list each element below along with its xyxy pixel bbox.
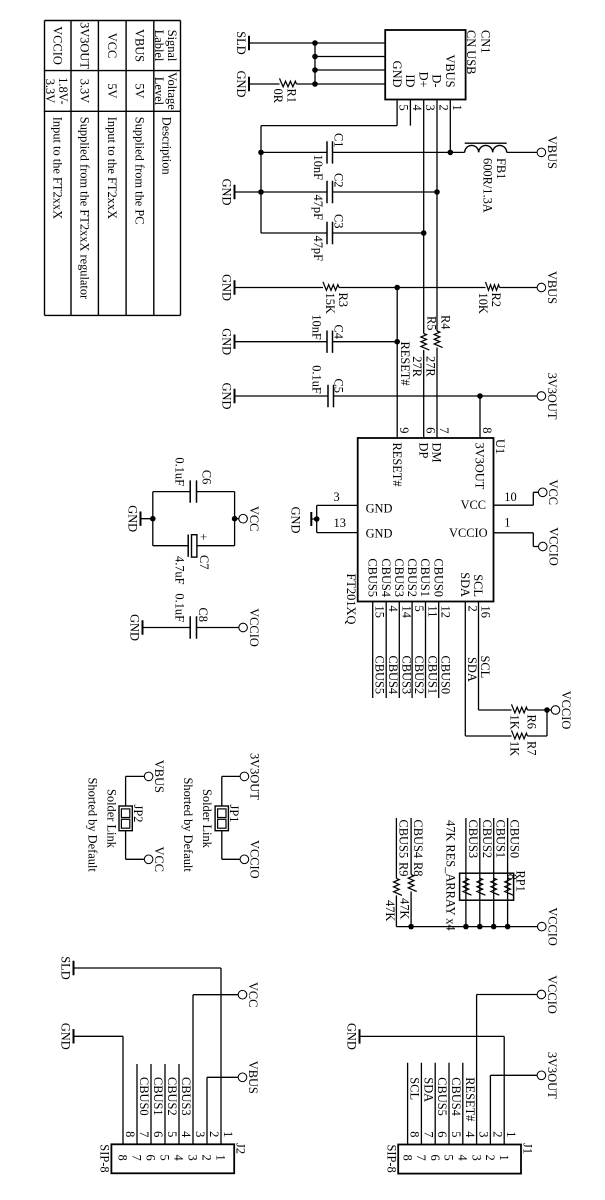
capacitor C2 47pF bbox=[261, 173, 440, 220]
J2 pin 5 numbers bbox=[158, 1131, 179, 1161]
svg-text:7: 7 bbox=[414, 1155, 428, 1161]
svg-text:5: 5 bbox=[158, 1155, 172, 1161]
wire J1 RESET# net bbox=[463, 1063, 477, 1145]
wire CN1 shield stub S2 bbox=[315, 56, 385, 58]
svg-text:10K: 10K bbox=[476, 293, 490, 314]
J2 pin 4 numbers bbox=[172, 1131, 193, 1161]
svg-text:Shorted by Default: Shorted by Default bbox=[86, 778, 100, 873]
VCC flag bbox=[235, 506, 261, 531]
svg-text:VCCIO: VCCIO bbox=[51, 26, 65, 65]
wire CBUS5 net bbox=[373, 602, 387, 699]
wire joining U1 ground pins bbox=[316, 505, 318, 532]
ground flag below C6/C7 bbox=[126, 505, 153, 532]
U1 left pin 7 DM bbox=[430, 427, 451, 462]
U1 right pin 16 SCL bbox=[471, 574, 492, 618]
junction dots on shield bus bbox=[312, 40, 318, 87]
svg-text:Solder Link: Solder Link bbox=[200, 789, 214, 849]
wire D- / DM line bbox=[436, 100, 438, 439]
wire CBUS3 net bbox=[399, 602, 413, 699]
resistor R8 47K on CBUS4 bbox=[398, 818, 426, 927]
wire SDA net bbox=[465, 602, 479, 737]
svg-text:9: 9 bbox=[397, 427, 411, 433]
wire J2 CBUS2 net bbox=[165, 1064, 179, 1144]
J1 pin 8 numbers bbox=[400, 1131, 421, 1160]
ground flag below R1 bbox=[234, 71, 249, 98]
VCCIO flag at J1 bbox=[537, 975, 559, 1014]
svg-text:GND: GND bbox=[366, 527, 393, 541]
U1 right pin 12 CBUS0 bbox=[431, 558, 452, 617]
svg-text:VCC: VCC bbox=[247, 506, 261, 531]
ground flag below R3 bbox=[220, 274, 235, 301]
VBUS flag top-left bbox=[537, 136, 559, 169]
svg-text:47pF: 47pF bbox=[311, 236, 325, 262]
svg-text:JP2: JP2 bbox=[131, 805, 145, 823]
svg-text:C5: C5 bbox=[332, 379, 346, 393]
wire CBUS4 net bbox=[386, 602, 400, 699]
svg-text:Input to the FT2xxX: Input to the FT2xxX bbox=[105, 117, 119, 219]
wire CBUS0 to RP1 bbox=[508, 818, 522, 927]
wire D+ / DP line bbox=[423, 100, 425, 439]
J1 pin 7 numbers bbox=[414, 1131, 435, 1160]
svg-text:3V3OUT: 3V3OUT bbox=[248, 753, 262, 800]
capacitor C7 4.7uF polarized bbox=[153, 533, 235, 584]
J1 pin 4 numbers bbox=[456, 1131, 477, 1160]
resistor R2 10K bbox=[397, 282, 537, 314]
svg-text:RESET#: RESET# bbox=[398, 342, 412, 386]
svg-text:VBUS: VBUS bbox=[246, 1061, 260, 1094]
svg-text:CBUS5: CBUS5 bbox=[435, 1077, 449, 1116]
svg-text:CBUS2: CBUS2 bbox=[480, 820, 494, 859]
svg-text:12: 12 bbox=[439, 606, 453, 618]
node RESET junction dots bbox=[394, 285, 400, 345]
J1 pin 1 numbers bbox=[497, 1131, 518, 1160]
svg-text:GND: GND bbox=[234, 71, 248, 98]
connector J2 SIP-8 bbox=[98, 1143, 248, 1173]
J2 pin 8 numbers bbox=[116, 1131, 137, 1161]
svg-text:27R: 27R bbox=[410, 356, 424, 377]
svg-text:D+: D+ bbox=[416, 72, 430, 88]
svg-text:CBUS3: CBUS3 bbox=[399, 656, 413, 695]
svg-text:47K: 47K bbox=[383, 900, 397, 921]
svg-text:5: 5 bbox=[449, 1131, 463, 1137]
svg-text:CBUS1: CBUS1 bbox=[151, 1077, 165, 1116]
wire shield bus bbox=[314, 43, 316, 84]
svg-text:Solder Link: Solder Link bbox=[105, 789, 119, 849]
node GND rail junction bbox=[150, 516, 156, 522]
svg-text:Signal: Signal bbox=[165, 30, 179, 62]
svg-text:CN1: CN1 bbox=[479, 30, 493, 53]
VCC flag at JP2 bbox=[126, 847, 166, 872]
junction dots on RP1 bus bbox=[408, 924, 510, 930]
ground flag below C4 bbox=[220, 328, 235, 355]
resistor R3 15K bbox=[235, 282, 398, 314]
wire CBUS1 to RP1 bbox=[494, 818, 508, 927]
svg-text:2: 2 bbox=[207, 1131, 221, 1137]
svg-text:CBUS4: CBUS4 bbox=[386, 656, 400, 695]
svg-text:GND: GND bbox=[220, 274, 234, 301]
ground flag below cap bus bbox=[220, 179, 262, 206]
svg-text:8: 8 bbox=[408, 1131, 422, 1137]
U1 top pin 1 VCCIO bbox=[449, 516, 539, 547]
svg-text:JP1: JP1 bbox=[227, 805, 241, 823]
svg-text:VCCIO: VCCIO bbox=[545, 975, 559, 1014]
svg-text:3: 3 bbox=[477, 1131, 491, 1137]
capacitor C3 47pF bbox=[261, 214, 427, 261]
svg-text:R6: R6 bbox=[524, 715, 538, 729]
svg-text:SDA: SDA bbox=[465, 657, 479, 682]
wire CBUS1 net bbox=[426, 602, 440, 699]
3V3OUT flag at J1 bbox=[537, 1052, 559, 1099]
svg-text:8: 8 bbox=[400, 1155, 414, 1161]
svg-text:0.1uF: 0.1uF bbox=[173, 593, 187, 622]
SLD flag bbox=[234, 31, 249, 54]
wire SLD down bbox=[249, 42, 315, 44]
svg-text:CBUS3: CBUS3 bbox=[466, 820, 480, 859]
node R6/R7 junction bbox=[544, 707, 550, 713]
svg-text:3.3V: 3.3V bbox=[78, 79, 92, 103]
table: signal description table bbox=[43, 21, 180, 316]
svg-text:Description: Description bbox=[160, 117, 174, 175]
svg-text:4: 4 bbox=[179, 1131, 193, 1137]
svg-text:GND: GND bbox=[220, 383, 234, 410]
svg-text:VCCIO: VCCIO bbox=[546, 527, 560, 566]
J2 pin 6 numbers bbox=[144, 1131, 165, 1161]
J1 pin 6 numbers bbox=[428, 1131, 449, 1160]
svg-text:CBUS0: CBUS0 bbox=[431, 558, 445, 597]
svg-text:SDA: SDA bbox=[458, 572, 472, 597]
svg-text:VBUS: VBUS bbox=[152, 760, 166, 793]
svg-text:8: 8 bbox=[480, 427, 494, 433]
svg-text:CBUS5: CBUS5 bbox=[396, 820, 410, 859]
J2 pin 1 numbers bbox=[214, 1131, 235, 1161]
svg-text:CBUS1: CBUS1 bbox=[494, 820, 508, 859]
svg-text:27R: 27R bbox=[424, 356, 438, 377]
svg-text:Lablel: Lablel bbox=[152, 30, 166, 62]
resistor R4 27R bbox=[424, 315, 453, 377]
resistor R6 1K bbox=[479, 704, 552, 729]
svg-text:CBUS3: CBUS3 bbox=[179, 1077, 193, 1116]
svg-text:6: 6 bbox=[144, 1155, 158, 1161]
svg-text:GND: GND bbox=[220, 328, 234, 355]
svg-text:16: 16 bbox=[479, 606, 493, 618]
U1 bottom pin 13 GND bbox=[317, 516, 393, 541]
svg-text:GND: GND bbox=[390, 61, 404, 88]
svg-text:0.1uF: 0.1uF bbox=[173, 457, 187, 486]
svg-text:R8: R8 bbox=[411, 862, 425, 876]
U1 right pin 2 SDA bbox=[458, 572, 479, 612]
svg-text:5: 5 bbox=[397, 105, 411, 111]
svg-text:CBUS0: CBUS0 bbox=[508, 820, 522, 859]
svg-text:R3: R3 bbox=[336, 293, 350, 307]
svg-text:Supplied from the FT2xxX regul: Supplied from the FT2xxX regulator bbox=[78, 117, 92, 300]
svg-text:VCC: VCC bbox=[246, 982, 260, 1007]
svg-text:VCCIO: VCCIO bbox=[546, 907, 560, 946]
svg-text:R5: R5 bbox=[425, 316, 439, 330]
svg-text:RESET#: RESET# bbox=[463, 1077, 477, 1121]
wire J1 CBUS4 net bbox=[449, 1063, 463, 1145]
wire SCL net bbox=[478, 602, 492, 711]
svg-text:J1: J1 bbox=[521, 1143, 535, 1154]
CN1 pin 3 label D+ bbox=[416, 72, 437, 111]
wire J1 pin3 VCCIO bbox=[477, 995, 538, 1145]
VCC flag above U1 bbox=[538, 480, 560, 505]
svg-text:C2: C2 bbox=[332, 173, 346, 187]
svg-text:3: 3 bbox=[423, 105, 437, 111]
VCCIO flag above C8 bbox=[197, 608, 262, 647]
node VCC rail junction bbox=[232, 516, 238, 522]
svg-text:GND: GND bbox=[126, 505, 140, 532]
svg-text:11: 11 bbox=[426, 606, 440, 618]
wire CBUS3 to RP1 bbox=[466, 818, 480, 927]
svg-text:VCCIO: VCCIO bbox=[559, 691, 573, 730]
U1 left pin 6 DP bbox=[416, 427, 437, 458]
svg-text:6: 6 bbox=[428, 1155, 442, 1161]
wire J2 pin3 VCC bbox=[193, 995, 239, 1145]
U1 left pin 9 RESET# bbox=[390, 427, 411, 486]
wire J2 pin8 GND bbox=[74, 1036, 124, 1144]
svg-text:1K: 1K bbox=[508, 741, 522, 756]
svg-text:SCL: SCL bbox=[478, 656, 492, 679]
wire J2 pin1 SLD bbox=[74, 968, 222, 1144]
svg-text:6: 6 bbox=[151, 1131, 165, 1137]
connector CN1 (USB) bbox=[385, 30, 492, 100]
svg-text:4: 4 bbox=[386, 606, 400, 612]
J2 pin 3 numbers bbox=[186, 1131, 207, 1161]
capacitor C8 0.1uF bbox=[143, 593, 211, 638]
svg-text:VBUS: VBUS bbox=[545, 271, 559, 304]
svg-text:RESET#: RESET# bbox=[390, 443, 404, 487]
U1 left pin 8 3V3OUT bbox=[473, 427, 494, 489]
svg-text:SLD: SLD bbox=[59, 956, 73, 979]
svg-text:CBUS2: CBUS2 bbox=[405, 558, 419, 597]
J1 pin 3 numbers bbox=[469, 1131, 490, 1160]
svg-text:8: 8 bbox=[116, 1155, 130, 1161]
J2 pin 2 numbers bbox=[200, 1131, 221, 1161]
svg-text:CBUS3: CBUS3 bbox=[392, 558, 406, 597]
svg-text:SIP-8: SIP-8 bbox=[98, 1144, 112, 1172]
svg-text:7: 7 bbox=[137, 1131, 151, 1137]
capacitor C6 0.1uF bbox=[153, 457, 235, 502]
wire J2 CBUS1 net bbox=[151, 1064, 165, 1144]
VCCIO flag at JP1 bbox=[222, 840, 262, 879]
svg-text:FB1: FB1 bbox=[494, 158, 508, 179]
svg-text:R9: R9 bbox=[396, 862, 410, 876]
resistor R1 0R bbox=[249, 78, 315, 103]
svg-text:CBUS2: CBUS2 bbox=[165, 1077, 179, 1116]
svg-text:CBUS5: CBUS5 bbox=[365, 558, 379, 597]
svg-text:3: 3 bbox=[193, 1131, 207, 1137]
svg-text:3: 3 bbox=[469, 1155, 483, 1161]
svg-text:GND: GND bbox=[289, 507, 303, 534]
svg-text:6: 6 bbox=[424, 427, 438, 433]
svg-text:7: 7 bbox=[421, 1131, 435, 1137]
svg-text:J2: J2 bbox=[234, 1143, 248, 1154]
VCCIO flag above U1 bbox=[539, 527, 561, 566]
svg-text:7: 7 bbox=[130, 1155, 144, 1161]
svg-text:4.7uF: 4.7uF bbox=[173, 556, 187, 585]
svg-text:15: 15 bbox=[373, 606, 387, 618]
wire J2 CBUS0 net bbox=[137, 1064, 151, 1144]
svg-text:13: 13 bbox=[334, 516, 346, 530]
VCCIO flag above RP1 bus bbox=[538, 907, 560, 946]
svg-text:Voltage: Voltage bbox=[165, 72, 179, 110]
svg-text:GND: GND bbox=[59, 1023, 73, 1050]
svg-text:VCC: VCC bbox=[546, 480, 560, 505]
svg-text:CBUS1: CBUS1 bbox=[418, 558, 432, 597]
CN1 pin 2 label D- bbox=[430, 74, 451, 110]
CN1 pin 5 label GND bbox=[390, 61, 411, 111]
VCCIO flag above R6 bbox=[551, 691, 573, 730]
capacitor C5 0.1uF bbox=[235, 365, 538, 407]
svg-text:R1: R1 bbox=[285, 89, 299, 103]
svg-text:CBUS2: CBUS2 bbox=[412, 656, 426, 695]
svg-text:1: 1 bbox=[504, 1131, 518, 1137]
svg-text:3.3V: 3.3V bbox=[43, 79, 57, 103]
svg-text:SIP-8: SIP-8 bbox=[385, 1145, 399, 1173]
svg-text:SCL: SCL bbox=[471, 574, 485, 597]
svg-text:47K: 47K bbox=[398, 898, 412, 919]
wire VCCIO bus at RP1 bbox=[396, 926, 537, 928]
svg-text:8: 8 bbox=[123, 1131, 137, 1137]
svg-text:VCCIO: VCCIO bbox=[247, 608, 261, 647]
ground flag at J2 bbox=[59, 1023, 74, 1050]
svg-text:C3: C3 bbox=[332, 214, 346, 228]
U1 right pin 4 CBUS4 bbox=[379, 558, 400, 611]
svg-text:C6: C6 bbox=[200, 470, 214, 484]
ground flag below U1 bbox=[289, 507, 317, 534]
resistor R9 47K on CBUS5 bbox=[383, 818, 410, 927]
svg-text:1: 1 bbox=[221, 1131, 235, 1137]
svg-text:15K: 15K bbox=[323, 293, 337, 314]
capacitor C1 10nF bbox=[261, 133, 465, 180]
svg-text:600R/1.3A: 600R/1.3A bbox=[481, 158, 495, 213]
svg-text:DM: DM bbox=[430, 443, 444, 463]
svg-text:CBUS4: CBUS4 bbox=[411, 820, 425, 859]
resistor R7 1K bbox=[465, 710, 547, 756]
wire CBUS2 net bbox=[412, 602, 426, 699]
wire CBUS0 net bbox=[439, 602, 453, 699]
SLD flag at J2 bbox=[59, 956, 74, 979]
node VBUS junction bbox=[448, 150, 454, 156]
svg-text:5V: 5V bbox=[105, 83, 119, 98]
wire CN1 shield stub S3 bbox=[315, 69, 385, 71]
svg-text:7: 7 bbox=[437, 427, 451, 433]
3V3OUT flag at JP1 bbox=[222, 753, 262, 800]
svg-text:47K RES_ARRAY x4: 47K RES_ARRAY x4 bbox=[444, 820, 458, 931]
svg-text:C4: C4 bbox=[332, 325, 346, 339]
svg-text:R2: R2 bbox=[489, 293, 503, 307]
svg-text:2: 2 bbox=[483, 1155, 497, 1161]
wire CN1 pin5 GND bbox=[261, 100, 397, 126]
svg-text:2: 2 bbox=[465, 606, 479, 612]
svg-text:3: 3 bbox=[186, 1155, 200, 1161]
wire J1 SDA net bbox=[421, 1063, 435, 1145]
connector J1 SIP-8 bbox=[385, 1143, 535, 1174]
svg-text:GND: GND bbox=[345, 1023, 359, 1050]
svg-text:2: 2 bbox=[437, 105, 451, 111]
svg-text:CBUS4: CBUS4 bbox=[449, 1077, 463, 1116]
solder link JP2 bbox=[86, 776, 146, 872]
svg-text:2: 2 bbox=[200, 1155, 214, 1161]
svg-text:3: 3 bbox=[334, 490, 340, 504]
wire CN1 pin4 ID stub bbox=[409, 100, 411, 126]
svg-text:C1: C1 bbox=[332, 133, 346, 147]
svg-text:1K: 1K bbox=[508, 715, 522, 730]
U1 top pin 10 VCC bbox=[461, 490, 539, 512]
svg-text:VBUS: VBUS bbox=[443, 54, 457, 87]
svg-text:0R: 0R bbox=[271, 89, 285, 104]
VBUS flag at J2 bbox=[238, 1061, 260, 1094]
svg-text:C8: C8 bbox=[196, 608, 210, 622]
svg-text:CBUS0: CBUS0 bbox=[137, 1077, 151, 1116]
svg-text:CBUS1: CBUS1 bbox=[426, 656, 440, 695]
svg-text:SLD: SLD bbox=[234, 31, 248, 54]
wire 3V3OUT to U1 pin8 bbox=[479, 396, 481, 438]
svg-text:CBUS5: CBUS5 bbox=[373, 656, 387, 695]
svg-text:47pF: 47pF bbox=[311, 195, 325, 221]
ferrite bead FB1 600R/1.3A bbox=[465, 143, 538, 213]
wire J1 SCL net bbox=[408, 1063, 422, 1145]
ground flag below C5 bbox=[220, 383, 235, 410]
solder link JP1 bbox=[181, 776, 241, 872]
svg-text:FT201XQ: FT201XQ bbox=[344, 574, 358, 625]
svg-text:+: + bbox=[197, 533, 211, 540]
svg-text:0.1uF: 0.1uF bbox=[310, 365, 324, 394]
svg-text:CBUS4: CBUS4 bbox=[379, 558, 393, 597]
capacitor C4 10nF bbox=[235, 314, 398, 353]
svg-text:1: 1 bbox=[504, 516, 510, 530]
svg-text:D-: D- bbox=[430, 74, 444, 87]
J2 pin 7 numbers bbox=[130, 1131, 151, 1161]
U1 right pin 5 CBUS2 bbox=[405, 558, 426, 611]
svg-text:10nF: 10nF bbox=[310, 314, 324, 340]
svg-text:ID: ID bbox=[403, 74, 417, 87]
wire CN1 shield stub S4 bbox=[315, 83, 385, 85]
wire RESET# net bbox=[397, 288, 412, 439]
svg-text:1.8V-: 1.8V- bbox=[56, 77, 70, 104]
ground flag below C8 bbox=[128, 614, 143, 641]
svg-text:4: 4 bbox=[456, 1155, 470, 1161]
svg-text:VCC: VCC bbox=[461, 498, 486, 512]
svg-text:DP: DP bbox=[416, 443, 430, 459]
svg-text:RP1: RP1 bbox=[514, 871, 528, 892]
wire J1 pin2 3V3OUT bbox=[490, 1075, 537, 1144]
wire CBUS2 to RP1 bbox=[480, 818, 494, 927]
svg-text:14: 14 bbox=[399, 606, 413, 618]
svg-text:R7: R7 bbox=[524, 741, 538, 755]
svg-text:Input to the FT2xxX: Input to the FT2xxX bbox=[51, 117, 65, 219]
svg-text:VCC: VCC bbox=[105, 33, 119, 58]
svg-text:1: 1 bbox=[214, 1155, 228, 1161]
svg-text:CN USB: CN USB bbox=[464, 30, 478, 74]
svg-text:10: 10 bbox=[504, 490, 516, 504]
svg-text:VCCIO: VCCIO bbox=[449, 526, 488, 540]
svg-text:5: 5 bbox=[412, 606, 426, 612]
CN1 pin 1 label VBUS bbox=[443, 54, 464, 110]
node U1 ground junction bbox=[314, 516, 320, 522]
svg-text:3V3OUT: 3V3OUT bbox=[545, 373, 559, 420]
ground flag at J1 bbox=[345, 1023, 360, 1050]
svg-text:C7: C7 bbox=[197, 555, 211, 569]
svg-text:3V3OUT: 3V3OUT bbox=[473, 443, 487, 490]
wire CN1 pin1 VBUS bbox=[449, 100, 451, 153]
J1 pin 2 numbers bbox=[483, 1131, 504, 1160]
svg-text:4: 4 bbox=[463, 1131, 477, 1137]
svg-text:VBUS: VBUS bbox=[545, 136, 559, 169]
svg-text:10nF: 10nF bbox=[311, 155, 325, 181]
svg-text:VBUS: VBUS bbox=[133, 29, 147, 62]
svg-text:5: 5 bbox=[442, 1155, 456, 1161]
